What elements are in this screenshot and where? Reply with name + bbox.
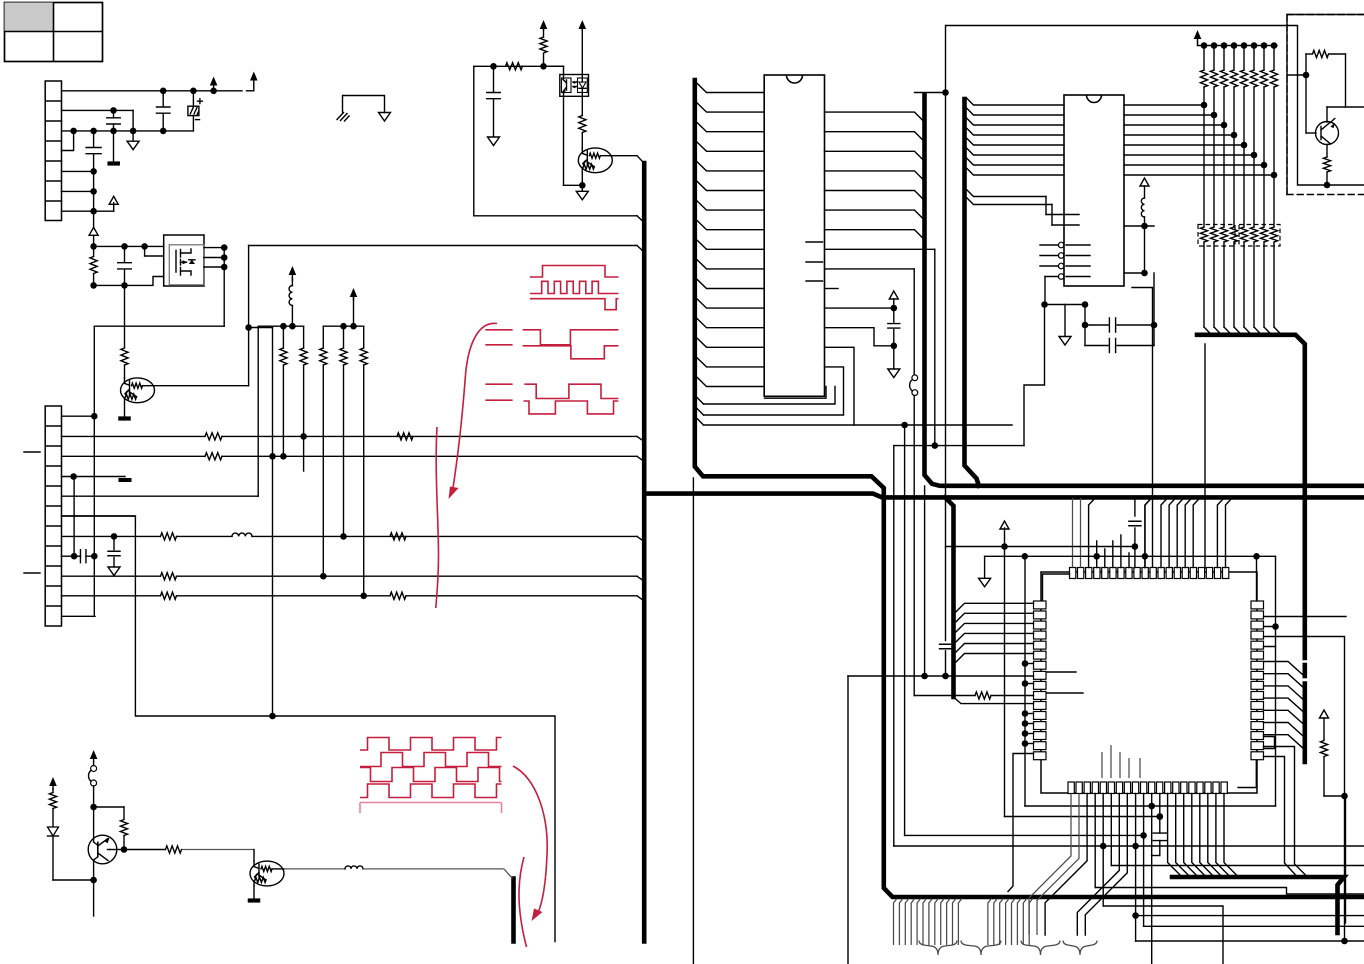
transistor Q2 digital — [121, 378, 155, 403]
bus T4 — [965, 99, 980, 486]
resistor R12 — [581, 96, 583, 115]
wire — [913, 396, 915, 696]
wire — [1046, 197, 1052, 226]
IC1 pin stub ext — [825, 288, 839, 290]
power arrow — [889, 291, 898, 299]
U3 drop k9 — [1143, 794, 1145, 927]
resistor R3 — [282, 326, 284, 348]
thick bus A — [1172, 877, 1344, 933]
wire — [1024, 556, 1026, 806]
junction — [221, 244, 228, 251]
wire — [847, 676, 849, 964]
red bracket — [360, 803, 502, 814]
wire row9 — [62, 575, 161, 577]
hanger wire — [696, 418, 704, 426]
U3 bottom pins — [1068, 782, 1074, 794]
bus resnet T5 — [1197, 335, 1305, 658]
capacitor C5 — [124, 246, 126, 261]
wire pin k10 — [954, 697, 1034, 704]
IC1 left pins — [696, 82, 764, 92]
wire r616 — [1264, 616, 1347, 618]
capacitor C6 — [113, 536, 115, 549]
IC1 pin crossing to 914 — [825, 268, 915, 270]
wire — [544, 65, 564, 67]
red arrow curve — [453, 323, 498, 491]
wire y941 — [1136, 940, 1364, 942]
connector CN1 — [45, 81, 61, 221]
wire rail — [94, 277, 164, 286]
wire — [363, 868, 504, 870]
wire — [1144, 226, 1146, 273]
IC2 right pins — [1124, 104, 1204, 106]
cap line riser — [1134, 498, 1136, 516]
wire — [1345, 54, 1347, 107]
capacitor C10 — [1085, 345, 1108, 347]
wire with up marker — [93, 211, 95, 227]
wire loop to bus — [474, 66, 637, 216]
wire riser — [257, 326, 259, 496]
wire — [692, 478, 694, 964]
resistor R10 — [506, 63, 523, 70]
wire loop b — [1264, 737, 1275, 749]
rail2 — [323, 325, 363, 327]
junction — [90, 282, 97, 289]
red arrow tail — [436, 427, 439, 608]
wire pin16 — [1008, 754, 1034, 892]
inductor L3 — [345, 866, 363, 869]
U3 left pins — [1034, 601, 1047, 609]
U3 bottom pin drops — [1029, 794, 1071, 936]
IC2 left pins — [966, 98, 1064, 106]
wire to QFP — [1132, 288, 1153, 569]
U3 drop k10 — [1151, 794, 1153, 964]
power arrow VCC1 — [210, 77, 218, 86]
IC2 bubble pins — [1058, 242, 1064, 248]
wire trunk 893 — [893, 446, 895, 846]
chassis ground — [337, 113, 349, 122]
IC1 nc stubs — [806, 242, 823, 281]
wire CN1 pin1 +B rail — [62, 90, 243, 92]
IC2 pin right a — [1124, 225, 1154, 227]
wire trunk 934 — [934, 249, 936, 445]
bus IC1-right T3 — [925, 95, 1364, 486]
dashed box RN2a — [1198, 225, 1235, 247]
transistor Q5 — [1316, 122, 1339, 145]
wire — [93, 786, 95, 807]
wire y787 — [1255, 761, 1257, 788]
wire — [223, 248, 225, 327]
wire — [1024, 305, 1045, 446]
transistor Q4 digital — [578, 148, 612, 173]
wire — [474, 65, 564, 67]
IC U2 — [764, 75, 824, 396]
red checker r3 — [360, 784, 502, 798]
wire — [1256, 556, 1258, 601]
resistor R16 — [1320, 710, 1329, 718]
bus T5 seg3 — [1303, 684, 1308, 763]
resistor R7 — [363, 326, 365, 348]
wire row11 — [62, 615, 96, 617]
wire stub — [144, 246, 146, 256]
ground — [488, 137, 500, 146]
wire — [132, 110, 134, 140]
wire row4 nc — [62, 476, 126, 478]
wire emitter — [124, 403, 126, 416]
wrap wire w1 — [825, 347, 855, 425]
IC1 pin1 ext — [915, 92, 946, 94]
connector CN2 — [45, 406, 61, 626]
wire base — [1305, 54, 1307, 133]
red waveform top t3 — [530, 299, 619, 310]
wire y888 — [1095, 888, 1364, 895]
wire trunk 945 — [945, 26, 947, 641]
junction — [121, 243, 128, 250]
resistor R4 — [303, 326, 305, 348]
wire pin to cap node — [825, 307, 894, 309]
capacitor C1 — [162, 91, 164, 107]
feeder 1205 — [1204, 344, 1206, 568]
wire — [1084, 305, 1086, 346]
U3 left pin links — [1025, 663, 1034, 665]
resistor R17 — [120, 820, 127, 836]
red swoosh arrow — [513, 766, 547, 917]
ground bar — [113, 131, 115, 161]
rail — [1198, 45, 1278, 47]
arrow marker — [113, 203, 115, 211]
inductor L2 — [1140, 178, 1149, 186]
junction — [269, 453, 276, 460]
capacitor C9 — [1085, 324, 1108, 326]
red waveform mid t1 — [523, 330, 619, 345]
wire — [110, 849, 124, 851]
brace 1 — [919, 941, 957, 956]
wire CN1 pin5 — [62, 170, 94, 172]
wire row2 — [62, 435, 206, 437]
U3 crystal ticks — [1097, 535, 1129, 568]
riser with dot — [1145, 498, 1152, 568]
bus IC1-left T2 — [695, 80, 1364, 897]
red waveform mid t2 — [523, 346, 619, 359]
resistor R5 — [322, 326, 324, 348]
ground — [984, 556, 986, 578]
ground — [1064, 305, 1066, 337]
wire — [1264, 747, 1308, 877]
wire to pin4 — [62, 131, 74, 151]
IC1 pin crossing to 934 — [825, 248, 935, 250]
U3 left pin fan — [956, 603, 1034, 612]
junction — [90, 243, 97, 250]
brace 3 — [1021, 941, 1060, 956]
resistor R2 — [121, 348, 128, 365]
junction — [1100, 843, 1107, 850]
wire branch — [249, 327, 273, 329]
power arrow — [90, 750, 98, 759]
junction — [340, 323, 347, 330]
wire base — [94, 857, 98, 860]
inductor L1 with arrow — [289, 286, 292, 306]
wire — [563, 96, 565, 185]
wire — [1345, 794, 1347, 923]
rail — [258, 325, 303, 327]
ground — [893, 346, 895, 369]
wire row1 — [62, 415, 95, 417]
red dash pair mid — [485, 330, 512, 345]
wire U3 corner — [1043, 574, 1070, 600]
U3 top pins — [1070, 568, 1076, 579]
bus branch to QFP — [945, 497, 954, 697]
IC U4 — [1064, 95, 1124, 286]
ground — [379, 113, 391, 122]
capacitor C7 — [493, 66, 495, 92]
junction dots — [1201, 42, 1208, 49]
wire CN1 pin3 gnd rail — [62, 130, 194, 132]
wire to bus — [249, 245, 637, 247]
wrap wire w4 — [765, 387, 827, 399]
capacitor C2 electrolytic — [192, 91, 194, 106]
title block table — [5, 3, 103, 62]
resistor R13 — [1306, 53, 1312, 55]
U3 drop k3 — [1094, 794, 1096, 888]
wire — [93, 171, 95, 211]
resistor R9 row2b — [397, 433, 413, 440]
wire y676 — [848, 675, 1034, 677]
brace 4 — [1063, 941, 1097, 956]
U3 top pin risers — [1072, 498, 1074, 568]
power arrow — [353, 297, 355, 326]
U3 drop k8 — [1135, 794, 1137, 942]
U3 drop k5 — [1110, 794, 1112, 866]
wire collector — [155, 385, 249, 387]
wire bubble leads — [1040, 245, 1058, 277]
wire top link — [947, 26, 1364, 186]
wire y445 — [894, 445, 1024, 447]
wire loop a — [1264, 627, 1276, 647]
dashed box RN2b — [1239, 225, 1280, 247]
bus trunk T1 — [642, 163, 647, 942]
junction — [942, 89, 949, 96]
wire — [94, 245, 164, 247]
U3 drop k4 — [1102, 794, 1104, 907]
wire jog — [825, 328, 894, 346]
wrap wire w2 — [704, 367, 844, 415]
wire row7 — [62, 535, 161, 537]
bus T5 seg2 — [1303, 665, 1308, 676]
capacitor C8 — [893, 303, 895, 322]
wire emitter — [581, 173, 583, 186]
wire trunk 904 — [904, 425, 906, 835]
IC U3 body — [1041, 572, 1257, 793]
junction — [90, 188, 97, 195]
power arrow VCC2 — [253, 85, 255, 91]
wire row6 — [62, 515, 136, 517]
U3 right pins — [1251, 601, 1264, 609]
optocoupler U1 — [560, 75, 589, 97]
junction — [90, 208, 97, 215]
wire X1 pins — [204, 247, 224, 249]
IC2 pin right b — [1124, 272, 1145, 274]
filter X1 box — [164, 235, 204, 286]
junction — [110, 107, 117, 114]
wire collector to bus — [612, 155, 637, 157]
wire y846 — [894, 845, 1364, 847]
wire — [1264, 757, 1298, 877]
wire collector — [93, 807, 95, 842]
junction — [141, 243, 148, 250]
wire row3 — [62, 455, 206, 457]
arrow power2 — [49, 777, 57, 786]
wire y916 — [1136, 915, 1364, 917]
wire — [253, 850, 255, 862]
connector curl marker — [912, 375, 918, 381]
resistor R15 — [914, 695, 975, 697]
red checker r2a — [360, 753, 502, 767]
wire collector — [284, 868, 345, 870]
wire CN1 pin2 — [62, 109, 134, 111]
transistor Q6 — [88, 835, 117, 864]
wire collector — [1326, 107, 1328, 122]
red dash pair mid2 — [485, 384, 512, 400]
resistor R11 — [543, 54, 545, 66]
ground — [108, 567, 120, 576]
wire gnd trunk — [93, 326, 95, 616]
red waveform top t1 — [530, 266, 619, 278]
capacitor C4 — [93, 131, 95, 147]
transistor Q7 digital — [250, 861, 284, 886]
diode D1 — [48, 827, 59, 836]
wire — [94, 806, 124, 808]
power arrow — [579, 20, 587, 29]
junction — [245, 324, 252, 331]
U3 drop k11 cap — [1159, 794, 1161, 834]
bus stub bottom-left — [511, 879, 516, 942]
resistor R8 row7b — [390, 533, 406, 540]
resistor R18 — [52, 789, 54, 792]
dashed enclosure — [1287, 15, 1364, 195]
red checker r1 — [360, 738, 502, 751]
red checker r2b — [360, 768, 502, 782]
capacitor C3 — [113, 110, 115, 118]
brace 2 — [961, 941, 1001, 956]
resistor array RN1 — [1203, 46, 1205, 71]
wire A — [946, 546, 1135, 548]
wire — [94, 325, 224, 327]
U3 bottom pin bevels — [1168, 794, 1182, 877]
resistor array RN2 — [1203, 105, 1205, 227]
wire — [1045, 304, 1086, 306]
IC1 right pins upper — [825, 112, 925, 122]
junction — [160, 88, 167, 95]
wire y926 — [1144, 925, 1364, 927]
wire B — [985, 555, 1276, 557]
wire trunk 924 — [924, 486, 926, 676]
junction — [269, 713, 276, 720]
T4 fan low — [966, 189, 1052, 205]
junction — [90, 168, 97, 175]
ground — [581, 185, 583, 191]
wrap wire w3 — [704, 387, 836, 405]
red waveform low t2 — [524, 401, 619, 414]
wire CN1 pin6 — [62, 190, 94, 192]
pin tick marks — [24, 452, 40, 573]
wire y906 — [1103, 906, 1223, 964]
resistor R19 — [124, 849, 165, 851]
resistor R14 — [1326, 145, 1328, 158]
wire gnd link — [73, 477, 75, 557]
resistor R1 — [93, 246, 95, 256]
U3 right pin fan — [1264, 662, 1303, 675]
U3 inner stubs — [1102, 745, 1140, 778]
bus H lower left — [646, 494, 1364, 498]
wire CN1 pin7 — [62, 210, 114, 212]
red waveform low t1 — [524, 384, 618, 398]
IC2 inner stubs — [1046, 215, 1079, 226]
capacitor C11 — [940, 644, 952, 649]
wire — [124, 285, 126, 347]
junction — [1324, 182, 1331, 189]
junction — [280, 323, 287, 330]
ground — [127, 141, 139, 150]
wire r636 — [1264, 637, 1345, 942]
wire bracket — [343, 96, 385, 113]
junction — [70, 128, 77, 135]
wire y866 — [1111, 865, 1364, 867]
marker — [1004, 528, 1006, 817]
mosfet Q1 symbol — [176, 250, 181, 276]
red waveform top t2 — [530, 281, 619, 293]
fan under bus — [894, 899, 898, 946]
wire emitter — [253, 886, 255, 898]
U3 left inner stubs — [1047, 672, 1083, 693]
wire row10 — [62, 595, 161, 597]
connector curl marker — [91, 766, 97, 772]
power arrow — [540, 20, 548, 29]
wire big L — [62, 516, 556, 942]
wire row8 caps — [62, 555, 75, 557]
resistor R6 — [343, 326, 345, 348]
wire — [1044, 277, 1046, 305]
wire — [53, 879, 94, 881]
